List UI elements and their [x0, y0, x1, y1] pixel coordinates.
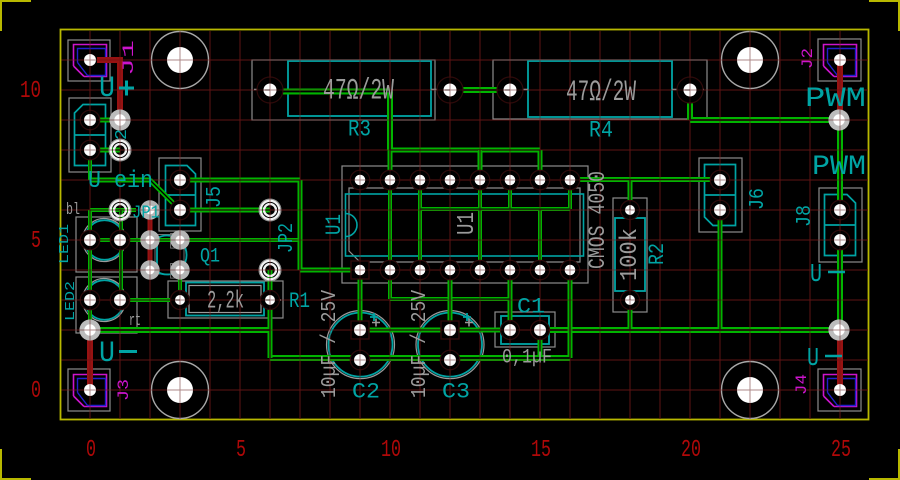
wire red via D to J4 pad: [837, 330, 843, 386]
connector J6 outline: [699, 158, 742, 232]
resistor R1 pads: [171, 291, 280, 310]
svg-text:10: 10: [20, 78, 41, 105]
svg-text:JP2: JP2: [276, 223, 299, 253]
wire R3 pad1 to U1 pin rail: [283, 92, 540, 181]
jumper ring pad 1: [109, 139, 131, 161]
pad J2 magenta outline: [824, 45, 857, 77]
capacitor C2 pads: [350, 321, 370, 370]
svg-text:20: 20: [681, 437, 701, 464]
wire U1 inner bus y299: [390, 180, 510, 330]
resistor R3 pads: [257, 77, 463, 103]
svg-text:R1: R1: [289, 289, 310, 314]
connector J6 pads: [710, 170, 730, 220]
svg-text:PWM: PWM: [812, 152, 866, 183]
resistor lead ticks: [175, 90, 690, 300]
pad J2 courtyard: [818, 39, 861, 81]
wire LED to Q1 bus y240: [90, 238, 300, 242]
resistor R1 outline: [168, 281, 283, 318]
svg-text:U: U: [99, 72, 115, 106]
pad J1 courtyard: [68, 40, 110, 81]
connector J7 (left input) outline: [69, 98, 111, 172]
resistor R4 outline: [493, 60, 707, 119]
svg-text:2: 2: [113, 129, 132, 140]
pad J4 courtyard: [818, 369, 861, 411]
svg-text:J3: J3: [115, 379, 133, 401]
capacitor C3 pads: [440, 321, 460, 370]
svg-text:U: U: [807, 343, 819, 373]
wire bottom U- bus y358: [270, 270, 570, 358]
wire R3 pad2 to R4 pad1: [450, 87, 510, 93]
pad J3 blue outline: [78, 379, 106, 406]
capacitor C2 plus marks: [370, 313, 380, 327]
wire red J1 pad to via A: [97, 60, 120, 120]
capacitor C3 plus marks: [463, 313, 473, 327]
board outline (Edge.Cuts): [61, 30, 869, 420]
svg-text:R2: R2: [645, 243, 670, 265]
svg-text:bl: bl: [66, 201, 80, 220]
capacitor C3 outline: [416, 311, 484, 379]
pad J4 blue outline: [828, 379, 856, 406]
LED2 outline: [76, 277, 137, 333]
LED2 pads: [80, 290, 130, 310]
svg-text:10µF / 25V: 10µF / 25V: [409, 290, 432, 398]
svg-text:5: 5: [31, 228, 41, 255]
wire red jumper JP1 links: [148, 212, 153, 268]
ruler labels left: [20, 78, 41, 405]
mounting hole MH3: [152, 362, 209, 419]
LED1 outline: [76, 217, 137, 272]
connector J8 outline: [819, 188, 862, 262]
pad J2 blue outline: [828, 49, 856, 76]
connector J7 pads: [80, 110, 100, 160]
wire J7 pad1 to via A: [90, 118, 120, 123]
wire U1 pin15 to J6 pad1: [576, 180, 720, 211]
svg-text:JP1: JP1: [132, 204, 160, 224]
op-amp/IC U1 outline: [342, 166, 588, 283]
wire R4 pad2 to via C (PWM): [690, 90, 839, 120]
svg-text:10µF / 25V: 10µF / 25V: [319, 290, 342, 398]
svg-text:J1: J1: [120, 40, 138, 76]
via node C: [828, 109, 849, 130]
svg-text:U: U: [99, 337, 115, 371]
wire U1 inner bus y209: [420, 150, 570, 270]
svg-text:Q1: Q1: [200, 246, 220, 269]
svg-text:15: 15: [531, 437, 551, 464]
wire via C to J8 pad1: [837, 120, 843, 210]
mounting hole MH2: [722, 32, 779, 89]
svg-text:LED2: LED2: [63, 281, 79, 321]
svg-text:0: 0: [31, 378, 41, 405]
transistor Q1 outline: [155, 234, 187, 279]
wire J8 pad2 to via D: [837, 240, 843, 330]
svg-text:C1: C1: [517, 295, 545, 320]
pad J1 hole: [84, 54, 96, 66]
connector J5 outline: [159, 158, 201, 231]
resistor R3 outline: [252, 60, 466, 120]
svg-text:J2: J2: [799, 48, 817, 69]
svg-text:R4: R4: [589, 118, 613, 144]
svg-text:rt: rt: [129, 312, 141, 331]
mounting hole MH1: [152, 32, 209, 89]
svg-text:5: 5: [236, 437, 246, 464]
via node D: [828, 319, 849, 340]
jumper ring pad 2: [109, 199, 131, 221]
wire J5 pad1 to U1 pin9: [180, 180, 360, 270]
wire J5 pad2 to JP2 ring: [180, 208, 270, 213]
svg-text:C2: C2: [352, 380, 380, 405]
svg-text:0: 0: [86, 437, 96, 464]
svg-text:100k: 100k: [617, 228, 644, 281]
svg-text:J5: J5: [204, 186, 227, 208]
transistor Q1 / jumper JP1 pads: [140, 200, 189, 279]
svg-text:J8: J8: [794, 205, 817, 227]
svg-text:10: 10: [381, 437, 401, 464]
wire red J2 pad to via C: [837, 64, 843, 120]
svg-text:U1: U1: [454, 212, 481, 235]
svg-text:C3: C3: [442, 380, 470, 405]
connector J8 pads: [830, 200, 850, 250]
via node A: [109, 109, 130, 130]
svg-text:U: U: [810, 259, 822, 289]
pad J3 hole: [84, 384, 96, 396]
pad J3 courtyard: [68, 369, 110, 411]
via node B: [79, 319, 100, 340]
svg-text:PWM: PWM: [805, 84, 866, 115]
resistor R4 pads: [497, 77, 703, 103]
pad J2 hole: [834, 54, 846, 66]
wire ring 2 to LED2 pad2: [119, 210, 123, 300]
wire J7 pad2 to ring1 and J5 pad2: [90, 150, 180, 210]
grid under layer: [62, 31, 869, 419]
ruler labels bottom: [86, 437, 851, 464]
svg-text:LED1: LED1: [57, 224, 73, 264]
svg-text:47Ω/2W: 47Ω/2W: [323, 75, 394, 109]
svg-text:J4: J4: [793, 374, 811, 395]
pad J4 magenta outline: [824, 375, 857, 407]
resistor R2 outline: [613, 198, 647, 312]
LED1 pads: [80, 230, 130, 250]
capacitor C2 outline: [327, 311, 395, 379]
pad J1 magenta outline: [74, 45, 107, 77]
svg-text:U ein: U ein: [88, 168, 153, 195]
svg-text:R3: R3: [348, 117, 371, 143]
pad J4 hole: [834, 384, 846, 396]
wire bottom-right U- bus y330: [546, 210, 839, 330]
jumper ring pad 4: [259, 259, 281, 281]
svg-text:2,2k: 2,2k: [207, 287, 244, 316]
svg-text:25: 25: [831, 437, 851, 464]
wire LED column left: [90, 210, 136, 330]
pad J3 magenta outline: [74, 375, 107, 407]
svg-text:47Ω/2W: 47Ω/2W: [566, 76, 636, 110]
wire via B to R1 pad2 y330: [90, 270, 270, 358]
wire red via B to J3 pad: [87, 333, 93, 386]
mounting hole MH4: [722, 362, 779, 419]
resistor R2 pads: [621, 201, 640, 310]
pad J1 blue outline: [78, 49, 106, 76]
svg-text:U1: U1: [322, 214, 347, 235]
capacitor C1 pads: [501, 321, 550, 340]
jumper ring pad 3: [259, 199, 281, 221]
svg-text:0,1µF: 0,1µF: [502, 347, 552, 370]
connector J5 pads: [170, 170, 190, 220]
svg-text:J6: J6: [747, 188, 770, 210]
grid main lines: [62, 31, 869, 419]
op-amp/IC U1 pads: [350, 170, 580, 280]
capacitor C1 outline: [495, 312, 555, 347]
svg-text:CMOS 4050: CMOS 4050: [585, 171, 611, 269]
wire LED2 to R1 pad1: [120, 270, 180, 300]
wire U1 pins to capacitor tops: [360, 270, 510, 330]
